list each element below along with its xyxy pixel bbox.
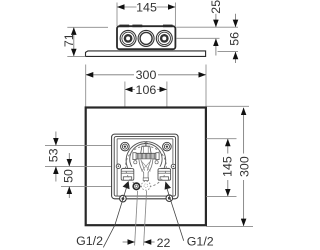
function block backplate top edge (117, 138, 173, 140)
dimension 25 (box top to port axis) (209, 0, 223, 56)
svg-text:G1/2: G1/2 (76, 234, 103, 248)
right valve body (158, 169, 171, 181)
arch foot left (123, 167, 132, 169)
extension line: left bottom port column (135, 191, 138, 246)
label G1/2 right (187, 234, 214, 248)
dimension 50 (row B to row C) (62, 153, 76, 198)
dimension 145 (top width) (117, 1, 175, 15)
dashed pin detail at arch apex (142, 142, 150, 145)
flow arrow right (165, 181, 171, 189)
screw top-right (163, 142, 172, 151)
screw bottom-right (166, 195, 173, 202)
extension line: box top to left (67, 26, 108, 28)
dimension 22 (bottom port spacing) (123, 236, 171, 250)
front view: function block outer frame (112, 134, 179, 199)
extension line: left screw column (124, 82, 126, 143)
function block backplate left edge (116, 139, 118, 196)
leader line G1/2 left (103, 188, 126, 248)
side view: extension line left of 145 dim (116, 3, 118, 27)
extension line: plate bottom to left (67, 55, 85, 57)
extension line: right screw column (166, 82, 168, 143)
svg-text:53: 53 (47, 148, 61, 162)
dimension 300 (top width) (86, 68, 206, 82)
side view: port circle right (156, 30, 172, 46)
front view: function block inner frame (114, 137, 175, 197)
dimension 300 (right, square height) (238, 108, 252, 226)
extension line: box top to right (176, 26, 238, 28)
extension line: plate top to right (218, 51, 239, 53)
extension line: ports top level to right (206, 138, 236, 140)
extension line: right bottom port column (144, 191, 147, 246)
side view: top tab 1 (119, 25, 129, 28)
arch foot right (161, 167, 170, 169)
side view: extension line right of 145 dim (174, 3, 176, 27)
side view: port circle left (120, 30, 136, 46)
front view: extension line top-left up (85, 65, 87, 107)
left valve port circle (116, 164, 120, 168)
dimension 56 (box top to plate) (228, 14, 242, 63)
left valve body (121, 169, 134, 181)
dashed escutcheon circle (125, 146, 166, 187)
crown top piece (141, 141, 151, 153)
svg-text:145: 145 (136, 1, 157, 15)
screw bottom-left (120, 195, 127, 202)
dimension 106 (screw spacing) (125, 83, 166, 97)
crown manifold bar (133, 153, 159, 160)
front view: extension line top-right up (205, 65, 207, 107)
hidden outlet port (dashed) (141, 181, 150, 190)
extension line: square top to right (206, 105, 249, 107)
side view: top tab 3 (163, 25, 173, 28)
svg-text:25: 25 (209, 0, 223, 14)
dimension 71 (total height) (62, 28, 76, 56)
svg-text:145: 145 (220, 156, 234, 177)
valve housing arch outer (126, 142, 166, 168)
extension line: port bottom level to right (206, 195, 236, 197)
svg-text:300: 300 (136, 68, 157, 82)
side view: basic set body (117, 26, 175, 49)
side view: top tab 2 (132, 25, 142, 28)
extension line C: bottom port row to left (61, 185, 133, 187)
right valve port circle (171, 164, 175, 168)
dimension 53 (row A to row B) (47, 132, 61, 182)
screw top-left (121, 142, 130, 151)
extension line: square bottom to right (206, 226, 253, 228)
extension line B: middle port row to left (45, 165, 116, 167)
dimension 145 (right, port span) (220, 139, 234, 196)
svg-text:22: 22 (157, 236, 171, 250)
extension line A: upper port row to left (45, 145, 121, 147)
label G1/2 left (76, 234, 103, 248)
valve housing arch inner (130, 144, 162, 167)
side view: port circle middle (138, 30, 154, 46)
svg-text:106: 106 (136, 83, 157, 97)
thermostat goblet (134, 159, 159, 180)
function block backplate right edge (172, 139, 174, 196)
svg-text:71: 71 (62, 33, 76, 47)
extension line: port axis to right (176, 37, 219, 39)
side view: mounting plate (86, 51, 206, 57)
flow arrow left (123, 181, 130, 189)
bottom outlet port (133, 183, 139, 189)
leader line G1/2 right (167, 189, 184, 241)
svg-text:56: 56 (228, 32, 242, 46)
svg-text:300: 300 (238, 156, 252, 177)
svg-text:50: 50 (62, 169, 76, 183)
svg-text:G1/2: G1/2 (187, 234, 214, 248)
front view: wall plate square (86, 108, 206, 226)
